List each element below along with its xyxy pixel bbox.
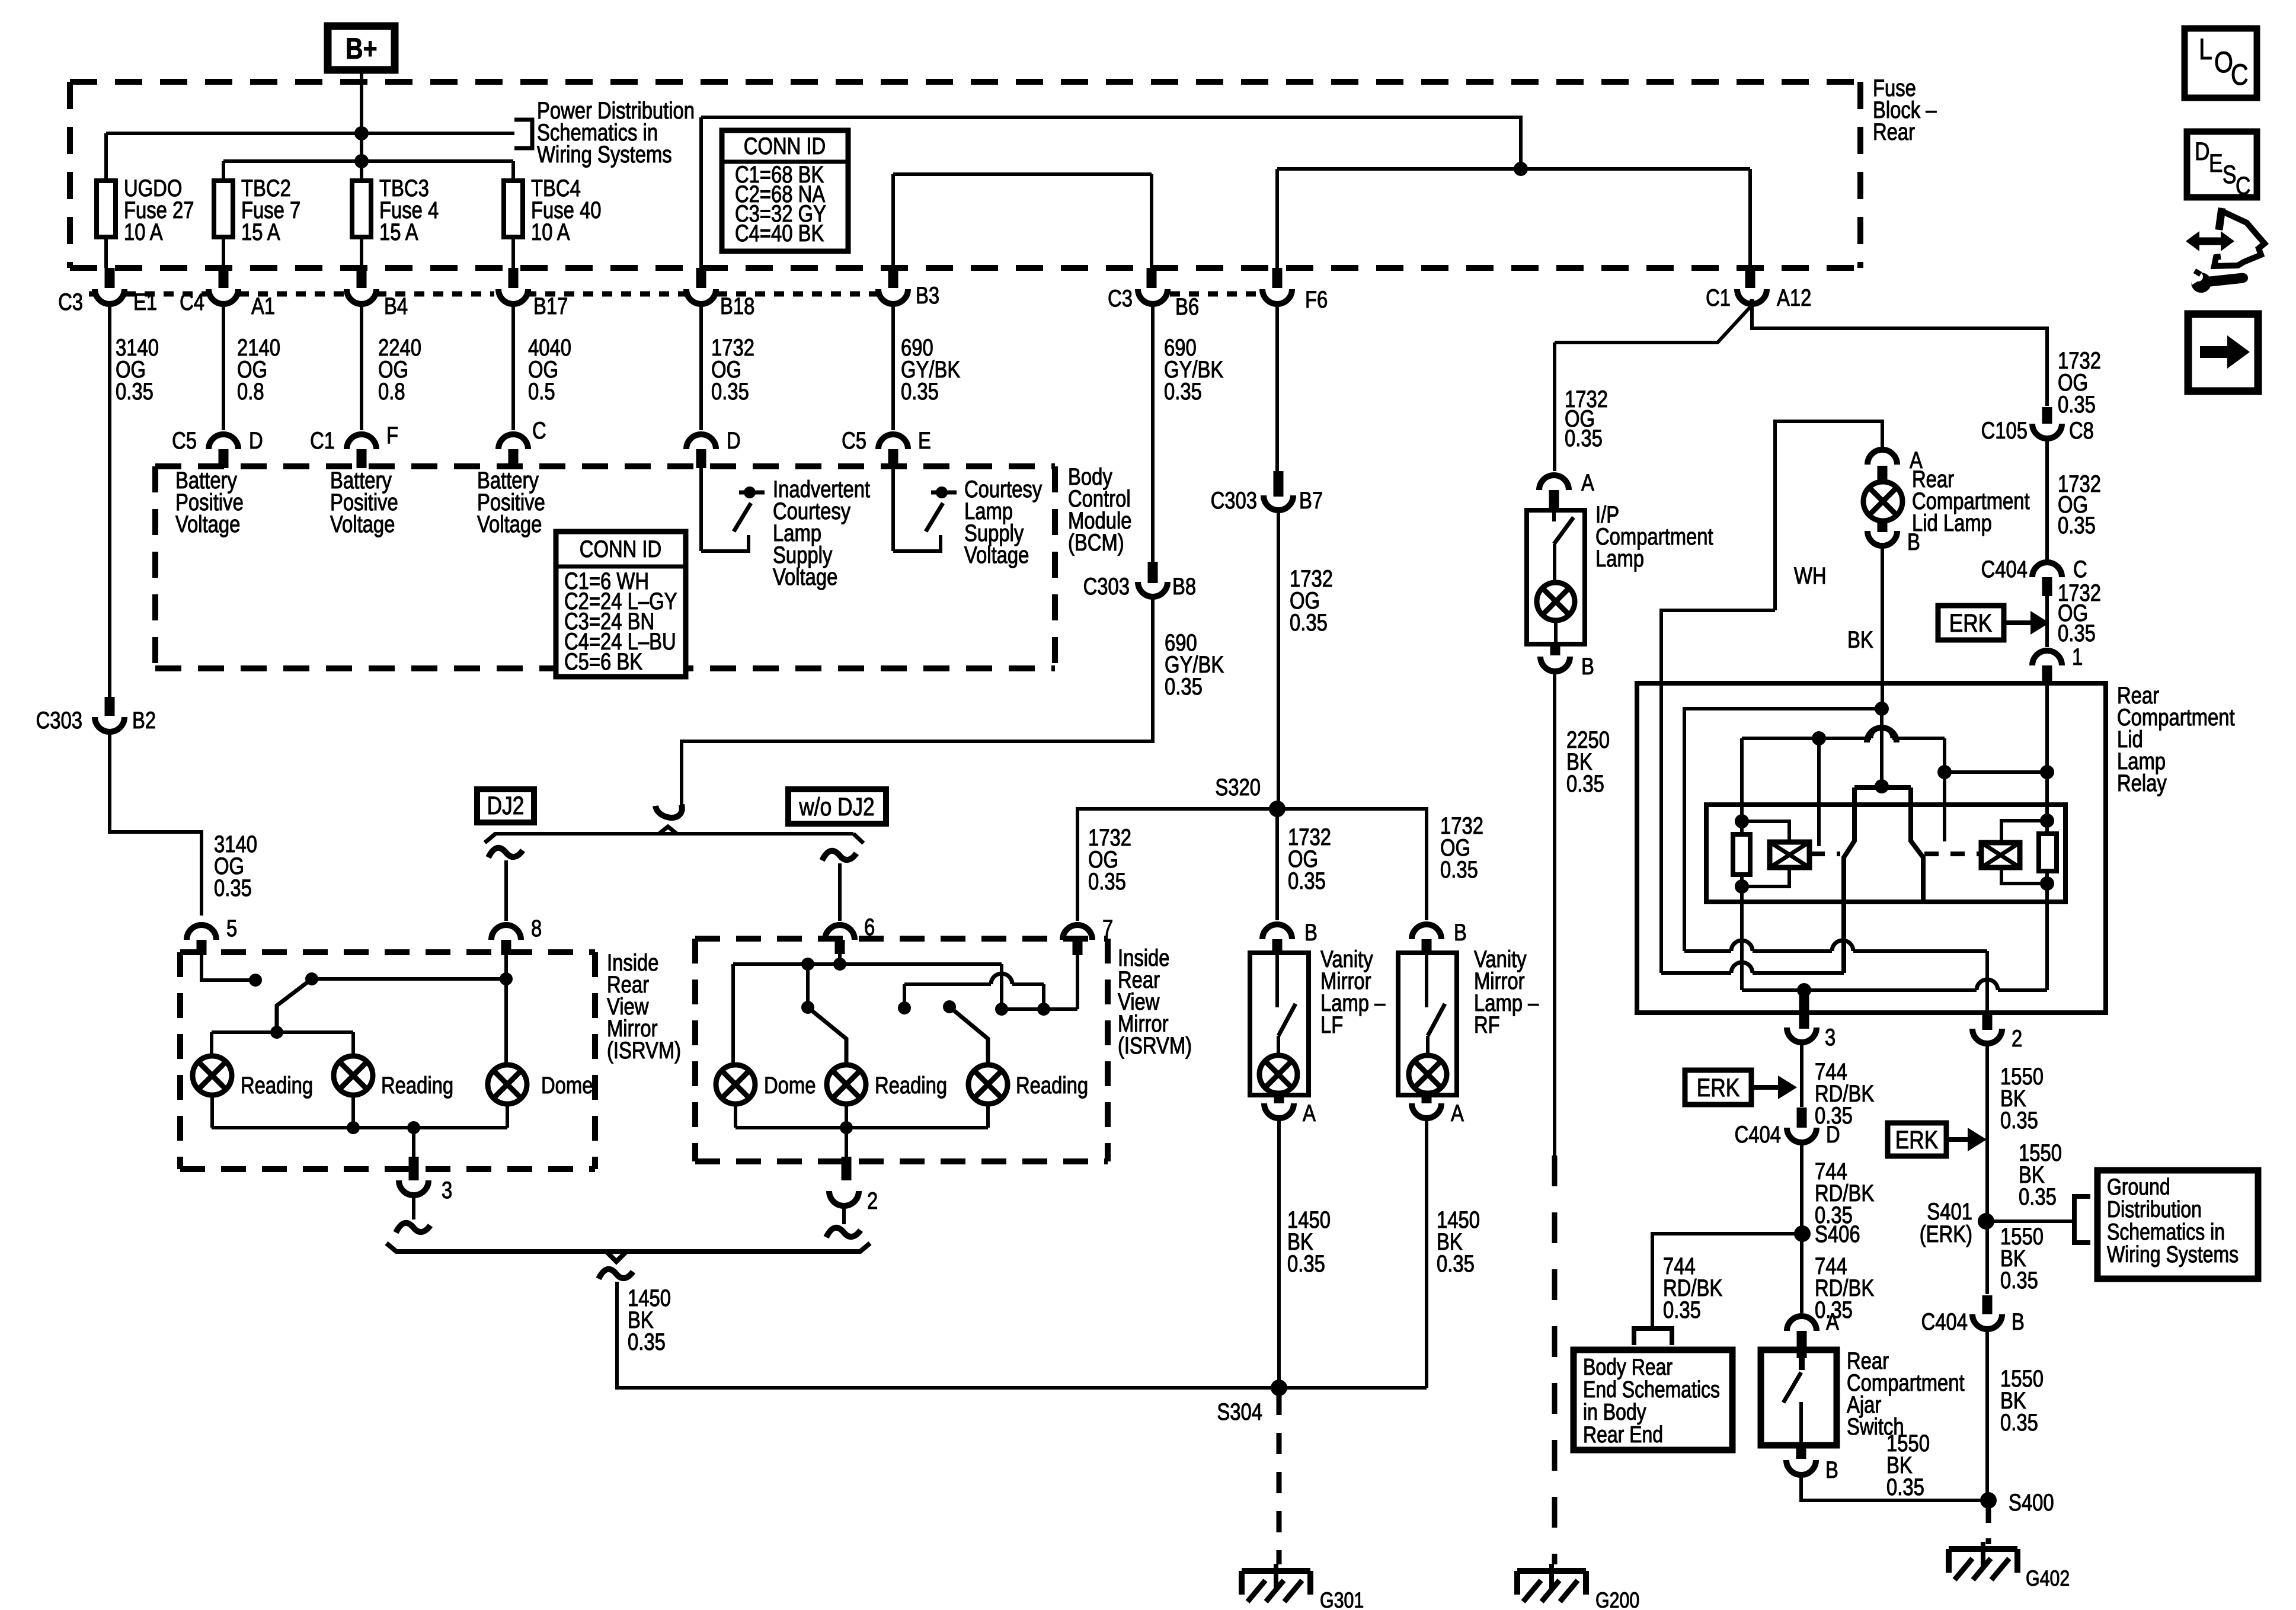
wire F6 to C303 B7 — [1275, 303, 1279, 471]
connector C303 pin B8 — [1148, 562, 1158, 583]
vanity mirror lamp RF box — [1398, 953, 1457, 1095]
svg-text:Voltage: Voltage — [175, 511, 240, 537]
node junction rail pin6 — [833, 958, 846, 971]
svg-text:Lid Lamp: Lid Lamp — [1912, 510, 1992, 536]
wire S406 to ajar switch — [1800, 1234, 1803, 1313]
svg-text:A12: A12 — [1777, 284, 1811, 311]
connector C303 pin B7 — [1274, 471, 1284, 497]
vanity mirror lamp LF box — [1250, 953, 1309, 1095]
wire pin3 to C404 D — [1800, 1041, 1803, 1107]
svg-text:G200: G200 — [1595, 1588, 1639, 1610]
wire fuse block internal F6-A12 feed — [1277, 167, 1750, 171]
svg-text:C: C — [2231, 58, 2249, 91]
svg-text:(BCM): (BCM) — [1068, 529, 1124, 556]
ground distribution schematics box — [2097, 1170, 2258, 1279]
svg-text:Rear End: Rear End — [1583, 1422, 1663, 1448]
svg-text:CONN ID: CONN ID — [744, 133, 826, 159]
wire E1 to C303 B2 — [108, 303, 111, 697]
wire B7 to S320 — [1277, 510, 1280, 809]
svg-text:0.35: 0.35 — [2019, 1183, 2057, 1210]
node junction F6 feed — [1514, 162, 1528, 176]
wire B3 to BCM pin E — [891, 303, 895, 430]
legend forward arrow box — [2188, 314, 2258, 391]
svg-text:RF: RF — [1474, 1012, 1500, 1038]
wire pin8 to dome lamp — [504, 955, 508, 1065]
svg-text:B6: B6 — [1175, 293, 1199, 320]
svg-text:0.35: 0.35 — [1565, 425, 1603, 452]
svg-text:2: 2 — [867, 1188, 878, 1214]
node junction crossbar right — [1037, 1003, 1050, 1016]
svg-text:A1: A1 — [251, 293, 275, 319]
wire C404 C to relay pin 1 — [2045, 596, 2049, 647]
wire C404 D to S406 — [1800, 1141, 1803, 1234]
lamp dome ISRVM — [488, 1065, 527, 1104]
legend tools icon — [2219, 208, 2222, 230]
svg-text:A: A — [1826, 1308, 1839, 1335]
node junction B+ bus upper — [354, 126, 369, 140]
resistor R2 relay — [2039, 834, 2057, 871]
switch courtesy lamp supply voltage — [891, 468, 895, 551]
svg-text:C3: C3 — [1108, 285, 1133, 312]
svg-text:0.35: 0.35 — [2058, 391, 2096, 418]
lamp IP compartment — [1537, 582, 1575, 620]
svg-text:G402: G402 — [2026, 1566, 2070, 1591]
connector C404 pin C — [2032, 562, 2062, 577]
connector pin A ajar switch — [1787, 1316, 1817, 1331]
node splice S406 — [1794, 1225, 1811, 1242]
svg-text:C5: C5 — [842, 427, 866, 454]
wire C404 B to S400 — [1985, 1328, 1989, 1500]
pointer bracket body rear end — [1634, 1329, 1672, 1345]
wire S304 to ground dashed — [1277, 1394, 1282, 1564]
connector C5 pin E BCM — [878, 434, 908, 449]
node junction B+ bus lower — [354, 154, 369, 168]
connector pin 6 ISRVM2 — [825, 925, 855, 940]
connector C105 pin C8 — [2042, 407, 2052, 424]
wire relay inner loop — [1684, 709, 1882, 951]
svg-text:D: D — [249, 427, 263, 454]
node mirror switch contact — [249, 974, 262, 987]
svg-text:A: A — [1581, 469, 1594, 496]
svg-text:Voltage: Voltage — [964, 542, 1029, 568]
svg-text:15 A: 15 A — [379, 219, 418, 245]
node mirror switch pivot — [305, 972, 318, 985]
svg-text:E: E — [2209, 149, 2223, 178]
wire S400 to ground dashed — [1986, 1505, 1991, 1544]
body rear end schematics box — [1574, 1350, 1732, 1450]
connector pin 8 ISRVM — [491, 925, 521, 940]
relay armature stem — [1880, 709, 1884, 783]
connector pin B17 — [509, 268, 519, 288]
resistor R1 relay — [1733, 834, 1750, 875]
svg-text:ERK: ERK — [1697, 1074, 1739, 1102]
wire B+ to fuse block — [360, 70, 363, 181]
wire mirror2 feed rail — [733, 962, 1002, 966]
svg-text:F: F — [386, 422, 398, 449]
node junction return 1 — [347, 1121, 360, 1134]
svg-text:1: 1 — [2072, 644, 2083, 670]
erk tag relay feed — [1938, 606, 2004, 640]
connector pin B3 — [888, 268, 898, 288]
wire 2250 BK dashed to ground — [1552, 1156, 1558, 1564]
lamp rear compartment lid — [1863, 482, 1902, 521]
wire pin 2 stub — [1982, 1014, 1993, 1030]
svg-text:Reading: Reading — [241, 1072, 313, 1099]
wire relay bottom bus — [1740, 886, 1744, 990]
svg-text:S304: S304 — [1217, 1398, 1262, 1425]
connector C303 pin B2 — [105, 697, 115, 716]
pointer bracket Power Distribution — [514, 120, 532, 148]
svg-text:B7: B7 — [1299, 487, 1323, 514]
svg-text:B: B — [1907, 529, 1920, 555]
lamp reading 2 ISRVM2 — [968, 1065, 1008, 1104]
wire pin1 relay internal — [2045, 683, 2049, 834]
ground G402 — [1949, 1546, 2017, 1552]
svg-text:C105: C105 — [1981, 417, 2028, 444]
relay fixed contact dome — [1867, 728, 1897, 742]
wire B4 to BCM pin F — [360, 303, 363, 430]
squiggle option feed end — [655, 805, 682, 818]
inside rear view mirror ISRVM2 dashed box — [695, 936, 1108, 942]
coil K1 relay — [1770, 842, 1809, 868]
connector pin 2 ISRVM2 — [829, 1191, 859, 1206]
svg-text:Dome: Dome — [764, 1072, 816, 1099]
wire W1 to pin 2 — [1684, 949, 1731, 953]
svg-text:C303: C303 — [1211, 487, 1257, 514]
svg-text:A: A — [1451, 1100, 1464, 1126]
ground G301 — [1242, 1568, 1310, 1574]
wire coil1 riser — [1740, 738, 1744, 821]
svg-text:LF: LF — [1320, 1012, 1343, 1038]
connector pin A vanity RF — [1422, 1095, 1432, 1103]
wire WH rear lid lamp feed — [1775, 421, 1882, 610]
svg-text:Reading: Reading — [1016, 1072, 1088, 1099]
svg-text:10 A: 10 A — [124, 219, 163, 245]
svg-text:Wiring Systems: Wiring Systems — [537, 141, 672, 168]
svg-text:0.8: 0.8 — [237, 378, 264, 405]
svg-text:D: D — [2195, 137, 2209, 166]
svg-text:0.35: 0.35 — [214, 875, 252, 901]
svg-text:0.35: 0.35 — [2000, 1107, 2038, 1134]
lamp reading 2 ISRVM — [334, 1056, 373, 1095]
node splice S400 — [1980, 1492, 1997, 1509]
svg-text:BK: BK — [1847, 626, 1873, 653]
node junction reading rail — [270, 1026, 283, 1039]
mechanical link dashes left — [1811, 852, 1840, 856]
svg-text:E1: E1 — [133, 289, 157, 315]
svg-text:S320: S320 — [1215, 774, 1261, 801]
svg-text:C303: C303 — [1083, 573, 1130, 600]
switch blade mirror2 left — [806, 964, 810, 1007]
connector C3 pin B6 — [1147, 268, 1157, 288]
connector pin B4 — [357, 268, 367, 288]
svg-text:C404: C404 — [1981, 556, 2028, 582]
conn id table BCM — [556, 532, 686, 677]
svg-text:0.35: 0.35 — [1886, 1474, 1924, 1500]
switch blade mirror2 right — [943, 1000, 956, 1013]
svg-text:C4=40 BK: C4=40 BK — [735, 220, 824, 247]
node splice S401 — [1978, 1213, 1994, 1230]
svg-text:G301: G301 — [1320, 1588, 1364, 1610]
svg-text:Lamp: Lamp — [1595, 545, 1644, 572]
connector row dotted line — [89, 292, 95, 297]
node junction BK relay — [1875, 702, 1889, 716]
svg-text:C3: C3 — [58, 289, 83, 315]
wire fuse block internal B18 feed — [701, 117, 1521, 169]
lamp reading 1 ISRVM — [193, 1056, 232, 1095]
wire lamp returns ISRVM — [210, 1095, 214, 1128]
node junction crossbar left — [995, 1003, 1008, 1016]
wire bus to UGDO fuse — [106, 132, 514, 135]
rear compartment lid lamp relay box — [1637, 683, 2106, 1013]
svg-text:5: 5 — [226, 915, 237, 942]
node junction left contact — [1812, 731, 1826, 745]
svg-text:E: E — [918, 427, 931, 454]
svg-text:B: B — [1454, 919, 1467, 946]
svg-text:Voltage: Voltage — [477, 511, 542, 537]
wire right contact to pin1 — [1945, 770, 2047, 774]
svg-text:0.35: 0.35 — [711, 378, 749, 405]
svg-text:B: B — [1581, 653, 1594, 680]
wire pivot to dome lamp feed — [312, 977, 506, 981]
svg-text:0.35: 0.35 — [1088, 868, 1126, 895]
relay armature plunger — [1875, 779, 1889, 793]
wire A12 to C105 C8 — [1752, 305, 2047, 406]
wire pin2 to S401 — [1985, 1042, 1989, 1221]
option tag wo DJ2 box — [788, 789, 886, 824]
svg-text:10 A: 10 A — [531, 219, 570, 245]
legend LOC box — [2185, 28, 2257, 98]
fuse TBC2 Fuse 7 15A — [214, 181, 233, 237]
lamp vanity LF — [1259, 1055, 1297, 1093]
svg-text:15 A: 15 A — [241, 219, 280, 245]
connector pin A rear lid lamp — [1868, 450, 1897, 465]
legend DESC box — [2187, 132, 2257, 197]
svg-text:Reading: Reading — [875, 1072, 947, 1099]
wire B17 to BCM pin C — [511, 303, 515, 430]
wire reading lamp rail — [212, 1030, 353, 1034]
svg-text:C1: C1 — [310, 427, 335, 454]
connector pin B ajar switch — [1796, 1445, 1806, 1459]
connector pin 7 ISRVM2 — [1063, 925, 1092, 940]
wire ajar B to S400 — [1801, 1473, 1988, 1500]
svg-text:0.35: 0.35 — [1165, 673, 1203, 700]
conn id table fuse block — [722, 130, 848, 251]
fuse TBC4 Fuse 40 10A — [504, 181, 523, 237]
svg-text:WH: WH — [1794, 562, 1827, 589]
svg-text:Voltage: Voltage — [330, 511, 395, 537]
wire return to pin 2 — [845, 1128, 848, 1157]
svg-text:0.35: 0.35 — [2000, 1267, 2038, 1294]
option tag DJ2 box — [477, 789, 534, 822]
wire contact crossover to pin7 bar — [904, 982, 991, 986]
svg-text:C404: C404 — [1735, 1121, 1781, 1148]
svg-text:B2: B2 — [132, 707, 156, 734]
svg-text:DJ2: DJ2 — [487, 792, 525, 820]
body control module dashed box — [155, 463, 1055, 469]
wire return to pin 3 — [412, 1128, 415, 1157]
connector pin 3 ISRVM — [399, 1180, 428, 1195]
wire pin 3 stub — [1799, 996, 1809, 1029]
switch vanity LF — [1275, 955, 1279, 1007]
node junction resistor1 bottom — [1735, 879, 1749, 894]
relay coil enclosure — [1706, 805, 2065, 902]
svg-text:S400: S400 — [2009, 1489, 2054, 1516]
wire S320 to vanity LF — [1275, 809, 1279, 920]
squiggle 1450 feed — [599, 1269, 633, 1279]
switch inadvertent courtesy lamp supply voltage — [699, 468, 703, 551]
connector pin B vanity LF — [1262, 924, 1292, 939]
relay fixed contact left — [1817, 738, 1821, 846]
svg-text:C5: C5 — [172, 427, 197, 454]
svg-text:C4: C4 — [180, 289, 204, 315]
svg-text:B4: B4 — [384, 293, 408, 319]
svg-text:C: C — [532, 417, 546, 444]
connector pin 1 relay — [2032, 651, 2062, 665]
connector pin A vanity LF — [1274, 1095, 1284, 1103]
svg-text:B+: B+ — [346, 32, 378, 65]
wire W2 WH to armature leg — [1661, 971, 1731, 975]
wire rail corner to crossbar — [1000, 964, 1003, 1009]
switch mirror2 right contact — [898, 1001, 911, 1014]
svg-text:CONN ID: CONN ID — [580, 536, 661, 562]
switch rear compartment ajar — [1799, 1357, 1805, 1370]
fuse block rear dashed box — [70, 79, 1860, 85]
svg-text:Wiring Systems: Wiring Systems — [2107, 1241, 2239, 1267]
svg-text:(ERK): (ERK) — [1920, 1221, 1972, 1247]
wire B6 to C303 B8 — [1151, 303, 1155, 562]
node splice S320 — [1269, 801, 1285, 817]
wire W3 contact bus — [1742, 737, 1871, 740]
svg-text:L: L — [2199, 33, 2212, 66]
wire pin6 into mirror2 — [838, 954, 842, 964]
connector C3 pin E1 — [105, 268, 115, 288]
connector C1 pin F BCM — [347, 434, 376, 449]
svg-text:C1: C1 — [1706, 284, 1731, 311]
svg-text:0.35: 0.35 — [1164, 378, 1202, 405]
node junction return pin2 — [840, 1121, 853, 1134]
fuse UGDO Fuse 27 10A — [97, 181, 116, 237]
node junction return pin3 — [407, 1121, 420, 1134]
wire A1 to BCM pin D — [222, 303, 225, 430]
svg-text:0.35: 0.35 — [1437, 1250, 1475, 1277]
svg-text:Reading: Reading — [381, 1072, 453, 1099]
lamp dome ISRVM2 — [716, 1065, 755, 1104]
svg-text:Dome: Dome — [541, 1072, 593, 1099]
svg-text:S: S — [2223, 161, 2237, 189]
switch IP lamp — [1552, 512, 1556, 521]
svg-text:Voltage: Voltage — [773, 564, 837, 590]
svg-text:8: 8 — [531, 915, 542, 942]
connector C404 pin D — [1797, 1108, 1807, 1128]
wire vanity LF to S304 — [1277, 1116, 1281, 1388]
inside rear view mirror ISRVM dashed box — [180, 949, 595, 955]
svg-text:0.35: 0.35 — [1663, 1297, 1701, 1323]
connector pin 3 relay — [1787, 1028, 1817, 1042]
wire S406 to body rear end — [1652, 1234, 1802, 1327]
coil K2 relay — [1981, 843, 2020, 868]
svg-text:0.35: 0.35 — [116, 378, 154, 405]
svg-text:D: D — [727, 427, 741, 454]
fuse TBC3 Fuse 4 15A — [352, 181, 371, 237]
svg-text:0.35: 0.35 — [901, 378, 939, 405]
connector pin 5 ISRVM — [187, 925, 216, 940]
svg-text:C5=6 BK: C5=6 BK — [564, 648, 642, 675]
svg-text:3: 3 — [442, 1177, 452, 1204]
svg-text:0.35: 0.35 — [2000, 1409, 2038, 1436]
wire B2 to ISRVM pin 5 — [110, 731, 202, 916]
svg-text:C404: C404 — [1921, 1308, 1968, 1335]
connector pin F6 — [1272, 268, 1283, 288]
lamp reading 1 ISRVM2 — [827, 1065, 866, 1104]
rear compartment ajar switch box — [1761, 1350, 1837, 1445]
connector C5 pin D BCM — [209, 434, 238, 449]
wire vanity RF to S304 — [1425, 1116, 1428, 1388]
connector pin B rear lid lamp — [1878, 521, 1888, 532]
battery feed B+ terminal — [328, 26, 395, 70]
connector C1 pin A12 — [1745, 268, 1755, 288]
svg-text:B: B — [1304, 919, 1318, 946]
svg-text:w/o DJ2: w/o DJ2 — [798, 793, 874, 821]
svg-text:0.35: 0.35 — [1288, 868, 1326, 894]
wire lamp returns ISRVM2 — [734, 1104, 737, 1128]
wire BK rear lid lamp to relay — [1881, 544, 1884, 709]
svg-text:0.35: 0.35 — [1290, 609, 1328, 636]
svg-text:C: C — [2236, 172, 2250, 200]
svg-text:0.35: 0.35 — [628, 1329, 666, 1355]
connector pin C BCM — [498, 434, 528, 449]
svg-text:Relay: Relay — [2117, 770, 2167, 796]
squiggle DJ2 branch — [488, 848, 523, 857]
svg-text:B18: B18 — [720, 293, 754, 319]
erk tag 744 — [1685, 1070, 1751, 1105]
switch vanity RF — [1425, 955, 1428, 1007]
wire pin7 drop — [1076, 955, 1079, 1009]
wire pin 3 tail — [412, 1193, 415, 1219]
switch blade mirror 1 — [277, 979, 312, 1032]
wire crossbar — [1002, 1007, 1077, 1011]
svg-text:0.35: 0.35 — [1287, 1250, 1325, 1277]
connector pin D BCM inadvertent — [686, 434, 716, 449]
svg-text:0.35: 0.35 — [1440, 856, 1478, 883]
svg-text:3: 3 — [1825, 1024, 1835, 1051]
connector pin 2 relay — [1972, 1029, 2002, 1044]
wire B8 to DJ2 option fork — [682, 596, 1153, 806]
lamp vanity RF — [1409, 1055, 1447, 1093]
node junction resistor2 top — [2040, 814, 2054, 828]
node junction dome feed — [500, 972, 513, 985]
svg-text:B8: B8 — [1172, 573, 1196, 600]
svg-text:O: O — [2214, 46, 2233, 79]
ground G200 — [1517, 1568, 1586, 1574]
wire S320 to vanity RF — [1277, 809, 1427, 920]
wire B18 to BCM pin D — [699, 303, 703, 430]
connector pin B18 — [696, 268, 706, 288]
option select line DJ2 / wo DJ2 — [494, 832, 853, 836]
svg-text:B3: B3 — [916, 282, 939, 309]
node junction pin3 bus — [1797, 983, 1811, 997]
erk tag 1550 — [1888, 1123, 1946, 1156]
svg-text:0.35: 0.35 — [1566, 770, 1604, 797]
wire A12 to IP lamp — [1750, 299, 1754, 307]
wire C8 to C404 C — [2045, 437, 2049, 563]
connector pin B IP lamp — [1550, 644, 1560, 655]
connector pin B vanity RF — [1412, 924, 1441, 939]
svg-text:C303: C303 — [36, 707, 82, 734]
connector C4 pin A1 — [219, 268, 229, 288]
wire pin5 to mirror switch — [202, 955, 255, 980]
svg-text:Rear: Rear — [1873, 119, 1915, 145]
